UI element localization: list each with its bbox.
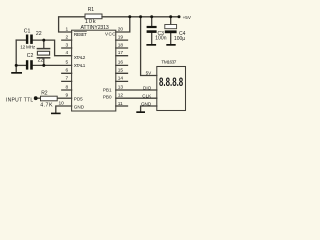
svg-text:5V: 5V (146, 70, 153, 75)
svg-text:XTAL2: XTAL2 (74, 55, 86, 60)
ground bar under C3 (146, 44, 156, 46)
svg-text:R1: R1 (88, 7, 95, 13)
svg-text:8.8.8.8: 8.8.8.8 (159, 77, 184, 89)
node +5V terminal (178, 15, 181, 18)
pin stubs right unconnected: 19,18,17,16,15,14 (116, 40, 128, 81)
wire C4 top lead (170, 17, 172, 25)
wire +5V rail (102, 16, 179, 18)
ground bar left (crystal) (11, 72, 22, 74)
capacitor C4 polarized (165, 25, 177, 34)
capacitor C2 (26, 60, 33, 69)
node rail-VCC (128, 15, 131, 18)
svg-text:15: 15 (118, 68, 124, 74)
svg-text:RESET: RESET (74, 32, 87, 37)
ground bar under TM1637 GND (136, 111, 145, 113)
svg-text:C2: C2 (27, 53, 34, 59)
svg-text:22: 22 (38, 58, 44, 64)
wire pin11 stub (116, 105, 128, 107)
wire GND pin10 to ground (56, 106, 72, 113)
pin stubs left unconnected: 2,3,6,7,8,10 (62, 40, 72, 90)
svg-text:PD5: PD5 (74, 97, 83, 102)
svg-text:R2: R2 (41, 90, 48, 96)
IC pin names inside (74, 32, 116, 110)
svg-text:13: 13 (118, 84, 124, 90)
svg-text:100n: 100n (155, 35, 167, 41)
crystal X1 12MHz (37, 49, 49, 58)
capacitor C1 (26, 35, 33, 44)
node rail-C4 (169, 15, 172, 18)
svg-text:1: 1 (66, 26, 69, 32)
ground bar under C4 (166, 44, 175, 46)
svg-text:TM1637: TM1637 (161, 60, 176, 65)
svg-text:17: 17 (118, 50, 124, 56)
wire VCC pin20 to rail (116, 17, 130, 32)
wire PB0 pin12 to CLK (116, 97, 157, 99)
wire R2 to PD5 pin9 (57, 97, 71, 99)
svg-text:8: 8 (66, 84, 69, 90)
node rail-C3 (150, 15, 153, 18)
wire TM1637 GND to ground (141, 106, 157, 111)
wire C1 row (16, 39, 26, 41)
svg-text:16: 16 (118, 60, 124, 66)
ground bar under pin10 GND (51, 113, 61, 115)
wire RESET: pin1 left then up to R1 (59, 17, 85, 32)
svg-text:DIO: DIO (143, 85, 152, 90)
node INPUT TTL terminal (34, 96, 38, 100)
svg-text:4.7K: 4.7K (40, 103, 53, 109)
IC pin numbers right (118, 26, 124, 107)
wire INPUT TTL to R2 (36, 97, 41, 99)
wire C1 to XTAL2 jog to pin4 (33, 40, 72, 56)
svg-text:PB1: PB1 (103, 87, 112, 92)
svg-text:100µ: 100µ (174, 36, 185, 42)
svg-text:5: 5 (66, 60, 69, 66)
capacitor C3 (147, 26, 157, 33)
wire C3 bottom lead (151, 33, 153, 44)
wire 5V drop to TM1637 (141, 17, 157, 76)
svg-text:PB0: PB0 (103, 95, 112, 100)
wire C3 top lead (151, 17, 153, 26)
wire left ground rail (15, 40, 17, 72)
svg-text:20: 20 (118, 26, 124, 32)
wire C2 to XTAL1 pin5 (33, 64, 72, 66)
node: junction dots (15, 15, 181, 100)
node rail-5V drop (139, 15, 142, 18)
svg-text:9: 9 (66, 93, 69, 99)
svg-text:18: 18 (118, 42, 124, 48)
svg-text:12 MHz: 12 MHz (20, 45, 36, 50)
svg-text:GND: GND (141, 102, 152, 107)
labels TM1637 pins (141, 70, 152, 106)
svg-text:12: 12 (118, 93, 124, 99)
svg-text:+5V: +5V (183, 15, 192, 20)
resistor R2 (41, 96, 58, 101)
node C1-crystal (42, 39, 45, 42)
svg-text:6: 6 (66, 68, 69, 74)
svg-text:14: 14 (118, 76, 124, 82)
svg-text:C1: C1 (24, 28, 31, 34)
svg-text:GND: GND (74, 104, 85, 109)
TM1637 module box (157, 67, 186, 111)
svg-text:XTAL1: XTAL1 (74, 63, 86, 68)
wire crystal top lead (43, 40, 45, 48)
svg-text:19: 19 (118, 34, 124, 40)
svg-text:CLK: CLK (142, 94, 152, 99)
resistor R1 (85, 14, 102, 19)
IC U1 ATTINY2313 box (72, 30, 116, 111)
wire C2 row (16, 64, 26, 66)
wire crystal bottom lead (43, 58, 45, 65)
svg-text:INPUT TTL: INPUT TTL (6, 97, 33, 103)
svg-text:7: 7 (66, 76, 69, 82)
svg-text:11: 11 (118, 101, 123, 107)
node C2-crystal (42, 64, 45, 67)
svg-text:3: 3 (66, 42, 69, 48)
node left rail C2 (15, 64, 18, 67)
IC pin numbers left (58, 26, 68, 106)
svg-text:4: 4 (66, 50, 69, 56)
wire PB1 pin13 to DIO (116, 89, 157, 91)
svg-text:10: 10 (58, 101, 64, 107)
wire C4 bottom lead (170, 33, 172, 44)
svg-text:ATTINY2313: ATTINY2313 (81, 25, 109, 31)
svg-text:2: 2 (66, 34, 69, 40)
svg-text:VCC: VCC (105, 32, 116, 37)
svg-text:22: 22 (36, 31, 42, 37)
